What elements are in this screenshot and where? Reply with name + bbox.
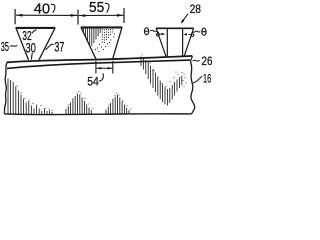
emitter cone stipple dots xyxy=(95,29,115,52)
label theta right xyxy=(202,28,206,35)
svg-text:26: 26 xyxy=(202,54,213,68)
label 16 leader xyxy=(193,76,202,83)
theta right tilde leader xyxy=(195,30,200,33)
spacer 28 right outer slant xyxy=(184,28,193,56)
dimension 40 left arrowhead xyxy=(16,14,23,17)
svg-text:35: 35 xyxy=(1,39,9,54)
dimension 55 left arrowhead xyxy=(79,14,86,17)
dimension 55 right arrowhead xyxy=(117,14,123,17)
dimension 40 line xyxy=(16,14,77,16)
emitter cone right slant edge xyxy=(113,27,122,59)
substrate hatching patch C xyxy=(106,95,129,114)
svg-text:37: 37 xyxy=(54,40,64,55)
label 54 hook leader xyxy=(99,73,104,81)
dimension 55 line xyxy=(79,14,124,16)
substrate 16 bottom edge xyxy=(4,113,191,116)
dimension 54 right arrowhead xyxy=(108,67,113,70)
spacer 28 right inner vertical xyxy=(182,28,184,56)
substrate hatching patch C dots xyxy=(109,93,132,110)
svg-text:40: 40 xyxy=(34,0,50,17)
theta right angle arc arrow xyxy=(191,32,195,37)
theta left angle arc arrow xyxy=(156,31,159,36)
substrate hatching patch D dots xyxy=(142,54,187,87)
substrate 16 left edge xyxy=(4,62,7,114)
spacer 28 left inner vertical xyxy=(166,28,168,56)
substrate hatching patch A xyxy=(8,79,52,115)
svg-text:28: 28 xyxy=(190,2,202,16)
svg-text:54: 54 xyxy=(87,75,99,89)
dimension tick shared (40/55) xyxy=(77,10,79,25)
spacer 28 left outer slant xyxy=(156,28,166,56)
dimension 54 left arrowhead xyxy=(96,67,101,70)
emitter cone shading strokes xyxy=(83,28,100,46)
layer 26 second line xyxy=(7,60,190,68)
label 28 arrow leader xyxy=(183,14,188,21)
emitter cone left slant edge xyxy=(81,27,96,59)
substrate 16 right edge xyxy=(191,60,195,114)
label 26 tilde leader xyxy=(193,59,200,62)
gate electrode 30 left slant edge xyxy=(16,28,29,60)
substrate hatching patch B dots xyxy=(69,91,94,109)
substrate hatching patch B xyxy=(66,94,91,114)
svg-text:16: 16 xyxy=(203,74,211,86)
emitter cone top edge xyxy=(81,26,123,28)
dimension 54 line xyxy=(96,67,112,69)
dimension 40 tick left xyxy=(14,9,16,24)
dimension 54 tick left xyxy=(95,61,97,74)
dimension 55 tick right xyxy=(123,8,125,23)
label 32 hook leader xyxy=(32,30,37,34)
dimension 54 tick right xyxy=(112,61,114,74)
label 40 hook leader xyxy=(51,4,55,13)
theta left tilde leader xyxy=(150,29,155,32)
label 28 arrowhead xyxy=(181,19,185,24)
label 35 leader dash xyxy=(10,45,17,46)
layer 26 top line xyxy=(7,56,192,62)
label 30 leader xyxy=(31,53,32,60)
svg-text:55: 55 xyxy=(89,0,104,16)
layer 26 right end drop xyxy=(191,56,193,60)
substrate hatching patch D (V-band) xyxy=(141,57,182,106)
svg-text:30: 30 xyxy=(26,39,36,55)
label theta left xyxy=(144,28,148,35)
label 37 leader xyxy=(46,44,54,50)
substrate hatching patch A dots xyxy=(13,82,53,111)
gate electrode 30 right slant edge xyxy=(39,28,55,60)
spacer 28 top edge xyxy=(156,27,194,29)
dimension 40 right arrowhead xyxy=(71,14,78,17)
gate electrode 30 top edge xyxy=(16,27,56,29)
label 55 hook leader xyxy=(105,3,109,12)
